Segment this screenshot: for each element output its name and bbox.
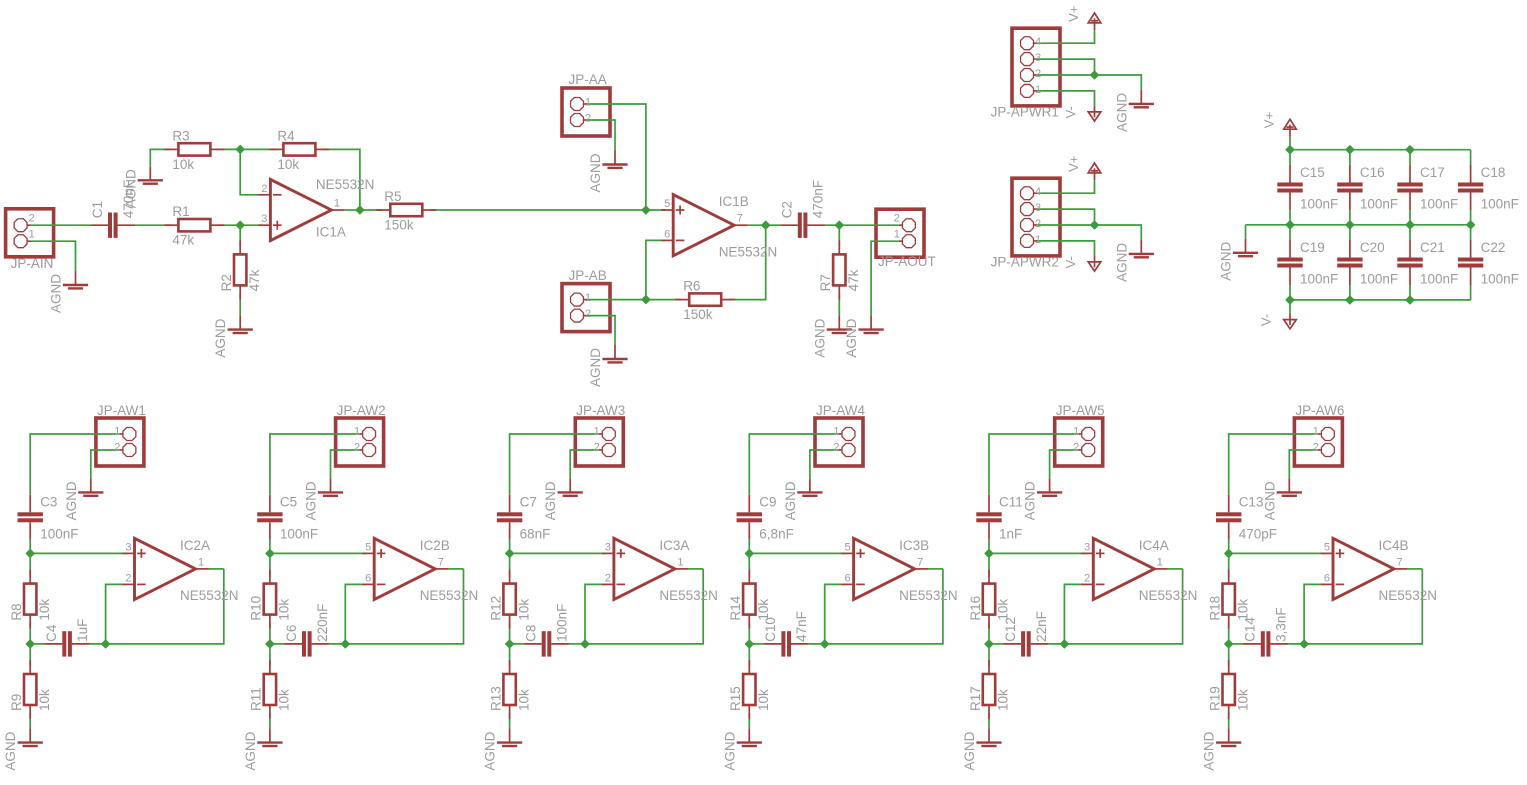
svg-text:C2: C2 (780, 201, 795, 218)
svg-text:2: 2 (585, 308, 591, 320)
svg-text:JP-AB: JP-AB (569, 268, 607, 283)
svg-text:100nF: 100nF (1420, 197, 1458, 212)
svg-text:V+: V+ (1066, 156, 1081, 172)
svg-text:100nF: 100nF (1360, 197, 1398, 212)
svg-text:1: 1 (114, 426, 120, 438)
svg-text:JP-AW4: JP-AW4 (816, 403, 865, 418)
svg-text:AGND: AGND (844, 318, 859, 357)
svg-text:NE5532N: NE5532N (316, 177, 375, 192)
svg-text:2: 2 (585, 113, 591, 125)
svg-text:10k: 10k (1235, 689, 1250, 711)
svg-text:R5: R5 (384, 189, 401, 204)
svg-text:6,8nF: 6,8nF (759, 526, 794, 541)
svg-text:6: 6 (1324, 572, 1330, 584)
svg-text:R12: R12 (488, 596, 503, 621)
svg-text:C12: C12 (1003, 617, 1018, 642)
svg-text:IC1A: IC1A (316, 225, 346, 240)
svg-text:IC2B: IC2B (420, 538, 450, 553)
svg-text:2: 2 (594, 442, 600, 454)
svg-text:2: 2 (261, 183, 267, 195)
svg-text:AGND: AGND (1114, 93, 1129, 132)
svg-text:V-: V- (1063, 106, 1078, 118)
svg-text:100nF: 100nF (1300, 197, 1338, 212)
svg-text:100nF: 100nF (40, 526, 78, 541)
svg-text:NE5532N: NE5532N (1139, 588, 1198, 603)
svg-text:R1: R1 (172, 204, 189, 219)
svg-text:1: 1 (585, 292, 591, 304)
svg-text:220nF: 220nF (315, 604, 330, 642)
svg-text:AGND: AGND (3, 731, 18, 770)
svg-text:R2: R2 (219, 274, 234, 291)
svg-text:1: 1 (585, 97, 591, 109)
svg-text:C1: C1 (90, 201, 105, 218)
svg-text:C7: C7 (520, 495, 537, 510)
svg-text:C10: C10 (763, 617, 778, 642)
svg-text:AGND: AGND (783, 481, 798, 520)
svg-text:NE5532N: NE5532N (659, 588, 718, 603)
svg-text:JP-APWR1: JP-APWR1 (991, 104, 1059, 119)
svg-text:R10: R10 (249, 596, 264, 621)
svg-text:2: 2 (114, 442, 120, 454)
svg-text:C9: C9 (759, 495, 776, 510)
svg-text:C13: C13 (1239, 495, 1264, 510)
svg-text:7: 7 (917, 556, 923, 568)
svg-text:NE5532N: NE5532N (719, 244, 778, 259)
svg-text:R15: R15 (728, 686, 743, 711)
svg-text:2: 2 (833, 442, 839, 454)
svg-text:100nF: 100nF (1300, 272, 1338, 287)
svg-text:AGND: AGND (64, 481, 79, 520)
svg-text:10k: 10k (172, 157, 194, 172)
svg-text:C16: C16 (1360, 165, 1385, 180)
svg-text:AGND: AGND (123, 169, 138, 208)
svg-text:100nF: 100nF (1360, 272, 1398, 287)
svg-text:4: 4 (1035, 186, 1041, 198)
svg-text:C6: C6 (284, 625, 299, 642)
svg-text:3: 3 (605, 541, 611, 553)
svg-text:2: 2 (605, 572, 611, 584)
svg-text:V+: V+ (1262, 112, 1277, 128)
svg-text:IC1B: IC1B (719, 194, 749, 209)
svg-text:C3: C3 (40, 495, 57, 510)
svg-text:10k: 10k (277, 689, 292, 711)
svg-text:JP-AW3: JP-AW3 (576, 403, 625, 418)
svg-text:1: 1 (594, 426, 600, 438)
svg-text:AGND: AGND (49, 274, 64, 313)
svg-text:R14: R14 (728, 595, 743, 620)
svg-text:3: 3 (125, 541, 131, 553)
svg-text:2: 2 (354, 442, 360, 454)
svg-text:AGND: AGND (1219, 242, 1234, 281)
svg-text:7: 7 (1397, 556, 1403, 568)
svg-text:2: 2 (29, 213, 35, 225)
svg-text:C5: C5 (280, 495, 297, 510)
svg-text:470nF: 470nF (811, 180, 826, 218)
svg-text:6: 6 (365, 572, 371, 584)
svg-text:AGND: AGND (1114, 243, 1129, 282)
svg-text:1: 1 (894, 229, 900, 241)
svg-text:3: 3 (1084, 541, 1090, 553)
svg-text:JP-AA: JP-AA (569, 72, 607, 87)
svg-text:1: 1 (1313, 426, 1319, 438)
svg-text:V-: V- (1063, 256, 1078, 268)
svg-text:JP-AOUT: JP-AOUT (878, 254, 936, 269)
svg-text:1: 1 (334, 198, 340, 210)
svg-text:1: 1 (677, 556, 683, 568)
svg-text:47nF: 47nF (794, 611, 809, 642)
svg-text:1uF: 1uF (75, 619, 90, 642)
svg-text:AGND: AGND (962, 731, 977, 770)
svg-text:AGND: AGND (543, 481, 558, 520)
svg-text:1: 1 (1035, 84, 1041, 96)
svg-text:1: 1 (354, 426, 360, 438)
svg-text:R18: R18 (1208, 596, 1223, 621)
svg-text:10k: 10k (277, 599, 292, 621)
svg-text:470pF: 470pF (1239, 526, 1277, 541)
svg-text:C17: C17 (1420, 165, 1445, 180)
svg-text:C20: C20 (1360, 240, 1385, 255)
svg-text:100nF: 100nF (1420, 272, 1458, 287)
svg-text:C22: C22 (1481, 240, 1506, 255)
svg-text:R19: R19 (1208, 686, 1223, 711)
svg-text:JP-AW1: JP-AW1 (97, 403, 146, 418)
svg-text:R4: R4 (277, 128, 295, 143)
svg-text:JP-APWR2: JP-APWR2 (991, 254, 1059, 269)
svg-text:NE5532N: NE5532N (180, 588, 239, 603)
svg-text:2: 2 (1035, 218, 1041, 230)
svg-text:10k: 10k (277, 157, 299, 172)
svg-text:100nF: 100nF (555, 604, 570, 642)
svg-text:1: 1 (1073, 426, 1079, 438)
svg-text:2: 2 (1035, 68, 1041, 80)
svg-text:2: 2 (1313, 442, 1319, 454)
svg-text:10k: 10k (37, 689, 52, 711)
svg-text:47k: 47k (846, 269, 861, 291)
svg-text:10k: 10k (996, 689, 1011, 711)
svg-text:3: 3 (1035, 202, 1041, 214)
svg-text:C18: C18 (1481, 165, 1506, 180)
svg-text:C11: C11 (999, 495, 1023, 510)
svg-text:AGND: AGND (1202, 731, 1217, 770)
svg-text:IC2A: IC2A (180, 538, 210, 553)
svg-text:C8: C8 (524, 625, 539, 642)
svg-text:AGND: AGND (588, 348, 603, 387)
svg-text:AGND: AGND (1262, 481, 1277, 520)
svg-text:AGND: AGND (304, 481, 319, 520)
svg-text:R16: R16 (968, 596, 983, 621)
svg-text:R3: R3 (172, 128, 189, 143)
svg-text:2: 2 (125, 572, 131, 584)
svg-text:C19: C19 (1300, 240, 1325, 255)
svg-text:5: 5 (365, 541, 371, 553)
svg-text:100nF: 100nF (280, 526, 318, 541)
svg-text:10k: 10k (37, 599, 52, 621)
svg-text:5: 5 (1324, 541, 1330, 553)
svg-text:150k: 150k (683, 307, 713, 322)
svg-text:R9: R9 (9, 694, 24, 711)
svg-text:150k: 150k (384, 218, 414, 233)
svg-text:100nF: 100nF (1481, 272, 1519, 287)
svg-text:R7: R7 (818, 274, 833, 291)
svg-text:JP-AW5: JP-AW5 (1056, 403, 1105, 418)
svg-text:1: 1 (29, 229, 35, 241)
svg-text:22nF: 22nF (1034, 611, 1049, 642)
svg-text:3: 3 (1035, 52, 1041, 64)
svg-text:7: 7 (737, 213, 743, 225)
svg-text:IC3A: IC3A (659, 538, 689, 553)
svg-text:IC4B: IC4B (1379, 538, 1409, 553)
svg-text:JP-AIN: JP-AIN (11, 256, 54, 271)
svg-text:1: 1 (833, 426, 839, 438)
svg-text:C21: C21 (1420, 240, 1445, 255)
svg-text:3: 3 (261, 213, 267, 225)
svg-text:IC3B: IC3B (899, 538, 929, 553)
svg-text:C14: C14 (1243, 617, 1258, 642)
svg-text:47k: 47k (247, 269, 262, 291)
svg-text:10k: 10k (516, 689, 531, 711)
svg-text:V-: V- (1258, 314, 1273, 326)
svg-text:100nF: 100nF (1481, 197, 1519, 212)
svg-text:R6: R6 (683, 279, 700, 294)
svg-text:JP-AW2: JP-AW2 (337, 403, 386, 418)
svg-text:3,3nF: 3,3nF (1274, 607, 1289, 642)
svg-text:R13: R13 (488, 686, 503, 711)
svg-text:NE5532N: NE5532N (899, 588, 958, 603)
svg-text:1: 1 (1157, 556, 1163, 568)
svg-text:6: 6 (664, 228, 670, 240)
svg-text:IC4A: IC4A (1139, 538, 1169, 553)
svg-text:68nF: 68nF (520, 526, 551, 541)
svg-text:AGND: AGND (243, 731, 258, 770)
svg-text:6: 6 (844, 572, 850, 584)
svg-text:AGND: AGND (588, 153, 603, 192)
svg-text:R17: R17 (968, 686, 983, 711)
svg-text:4: 4 (1035, 36, 1041, 48)
svg-text:2: 2 (894, 213, 900, 225)
svg-text:5: 5 (664, 198, 670, 210)
svg-text:47k: 47k (172, 233, 194, 248)
svg-text:R11: R11 (249, 687, 264, 711)
svg-text:AGND: AGND (213, 318, 228, 357)
svg-text:AGND: AGND (812, 318, 827, 357)
svg-text:AGND: AGND (722, 731, 737, 770)
svg-text:JP-AW6: JP-AW6 (1295, 403, 1344, 418)
svg-text:R8: R8 (9, 603, 24, 620)
svg-text:2: 2 (1084, 572, 1090, 584)
svg-text:7: 7 (438, 556, 444, 568)
svg-text:AGND: AGND (1023, 481, 1038, 520)
svg-text:AGND: AGND (483, 731, 498, 770)
svg-text:C15: C15 (1300, 165, 1325, 180)
svg-text:V+: V+ (1066, 6, 1081, 22)
svg-text:NE5532N: NE5532N (420, 588, 479, 603)
svg-text:NE5532N: NE5532N (1379, 588, 1438, 603)
svg-text:1: 1 (198, 556, 204, 568)
svg-text:10k: 10k (756, 689, 771, 711)
svg-text:C4: C4 (44, 624, 59, 642)
svg-text:5: 5 (844, 541, 850, 553)
svg-text:10k: 10k (516, 599, 531, 621)
svg-text:2: 2 (1073, 442, 1079, 454)
svg-text:1: 1 (1035, 234, 1041, 246)
svg-text:1nF: 1nF (999, 526, 1022, 541)
